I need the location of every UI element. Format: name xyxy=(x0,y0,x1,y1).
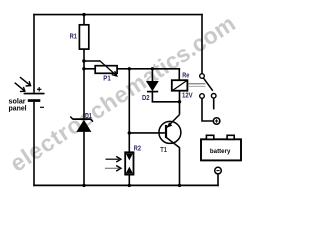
wire relay bottom terminal xyxy=(179,91,181,102)
solar panel plus sign xyxy=(37,87,41,91)
wire relay top terminal xyxy=(178,68,180,80)
relay mechanical link lines xyxy=(188,84,205,87)
switch contact right xyxy=(211,94,216,99)
battery xyxy=(201,135,241,160)
svg-text:P1: P1 xyxy=(103,73,111,82)
wire right rail to switch xyxy=(201,14,203,74)
transistor T1 xyxy=(159,115,181,148)
svg-text:panel: panel xyxy=(9,104,27,113)
P1 wiper diagonal with arrow xyxy=(99,60,117,76)
solar light arrow 2 xyxy=(15,83,25,92)
node dot R2 bottom rail xyxy=(128,184,131,187)
node dot D2 top xyxy=(151,67,154,70)
wire minus terminal to bottom rail xyxy=(217,174,219,186)
zener diode D1 xyxy=(70,117,93,132)
terminal plus xyxy=(213,118,220,125)
relay Re coil xyxy=(172,80,188,91)
svg-text:R1: R1 xyxy=(70,31,77,40)
wire R1 top stub xyxy=(83,15,85,25)
terminal minus xyxy=(215,167,222,174)
wire T1 base xyxy=(129,132,165,134)
resistor R2 (LDR) xyxy=(125,152,133,174)
svg-text:battery: battery xyxy=(210,148,231,155)
wire P1 wiper horizontal xyxy=(84,60,100,62)
collector diagonal (bottom) xyxy=(167,138,180,148)
resistor R1 xyxy=(79,25,88,49)
svg-text:D1: D1 xyxy=(85,111,92,120)
wire bottom rail xyxy=(33,184,219,186)
svg-text:12V: 12V xyxy=(182,91,193,100)
node dot T1 base xyxy=(128,131,131,134)
wire R1 bottom to D1 xyxy=(83,49,85,119)
svg-text:Re: Re xyxy=(182,71,189,80)
wire R2 bottom xyxy=(128,175,130,186)
emitter diagonal with arrow (PNP, top) xyxy=(167,115,180,128)
switch contact left xyxy=(200,94,205,99)
node dot R2 rail xyxy=(128,67,131,70)
node dot relay bottom xyxy=(178,100,181,103)
wire R2 rail vertical xyxy=(128,69,130,153)
watermark xyxy=(5,10,240,177)
node dot P1 left xyxy=(82,67,85,70)
solar panel PV plates xyxy=(24,93,45,102)
wire T1 emitter up to node xyxy=(179,102,181,115)
node dot T1 emitter rail xyxy=(178,184,181,187)
node dot top rail / R1 xyxy=(82,13,85,16)
wire left rail lower xyxy=(33,102,35,186)
wire left rail upper xyxy=(33,14,35,93)
solar light arrow 1 xyxy=(20,77,31,86)
wire P1 right to relay corner xyxy=(117,68,180,70)
light arrow at R2 upper xyxy=(106,156,121,162)
potentiometer P1 body xyxy=(95,66,117,74)
wire P1 left xyxy=(84,68,95,70)
wire from left contact to plus terminal xyxy=(202,98,213,121)
wire D1 to bottom rail xyxy=(83,132,85,186)
svg-text:R2: R2 xyxy=(134,144,141,153)
svg-text:T1: T1 xyxy=(160,145,167,154)
wire D2 to relay/T1 node xyxy=(152,101,181,103)
wire stub below right contact xyxy=(213,98,215,109)
diode D2 xyxy=(146,69,159,102)
solar panel minus sign xyxy=(40,106,44,108)
light arrow at R2 lower (gray shaft) xyxy=(105,166,121,172)
wire top rail xyxy=(33,14,203,16)
switch lever xyxy=(203,78,212,91)
node dot wiper xyxy=(82,59,85,62)
wire T1 collector down to rail xyxy=(179,147,181,185)
node dot D1 bottom rail xyxy=(82,184,85,187)
switch common contact xyxy=(200,74,205,79)
svg-text:D2: D2 xyxy=(142,93,150,102)
